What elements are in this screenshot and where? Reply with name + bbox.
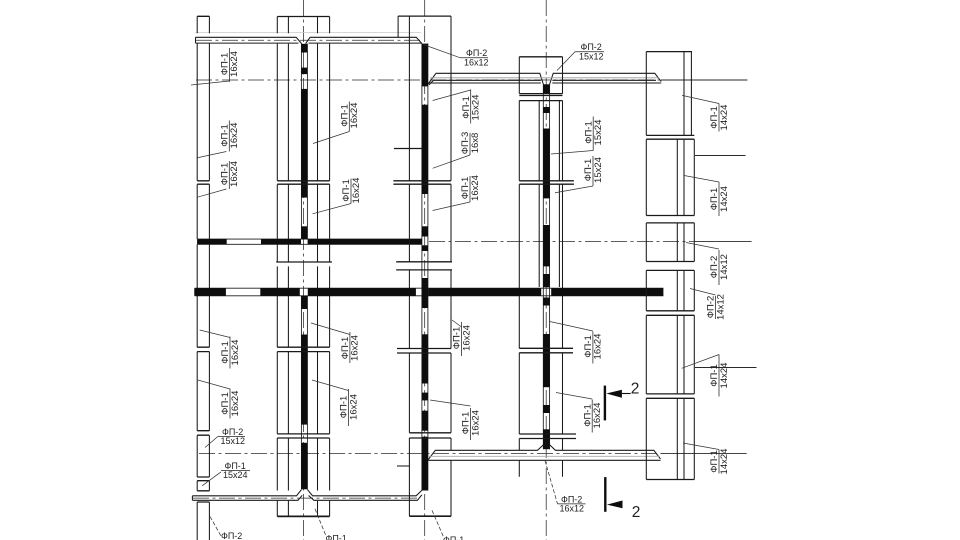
svg-text:ФП-1: ФП-1 xyxy=(443,535,464,540)
leader left lower xyxy=(205,436,218,447)
wall col4 black segment d xyxy=(543,225,549,266)
wall row3 outline xyxy=(195,288,664,296)
pads col3 line b xyxy=(450,16,452,516)
label ФП-2 16x12 top middle xyxy=(424,45,489,68)
label ФП-1 14x24 col5 b xyxy=(709,182,730,216)
svg-text:16x8: 16x8 xyxy=(470,133,481,154)
label ФП-1 15x24 col4 a xyxy=(583,117,604,151)
label ФП-1 16x24 col3 b xyxy=(460,175,481,202)
label ФП-1 15x24 col3 top xyxy=(461,90,482,124)
pads col1 joint caps xyxy=(197,16,209,502)
wall col3 black segment g xyxy=(422,393,428,401)
label ФП-1 16x24 col3 c xyxy=(452,322,473,356)
PAD COLUMN 1 (left edge foundation pads) xyxy=(197,16,209,540)
WALL ROW 2 (horizontal bearing wall) xyxy=(198,239,422,244)
AXES xyxy=(193,0,694,540)
svg-text:14x24: 14x24 xyxy=(719,363,730,389)
STRIP ROW 4 (bottom right foundation slab strip) xyxy=(428,445,660,461)
COLUMN 2 WALL (vertical bearing wall) xyxy=(301,44,307,490)
label ФП-1 16x24 col1 d xyxy=(220,337,241,369)
wall col3 black segment f xyxy=(422,334,428,383)
label ФП-1 14x24 col5 e xyxy=(709,355,730,397)
wall col3 black segment c xyxy=(422,226,428,236)
PAD COLUMN 3 (foundation pad strip) xyxy=(393,16,452,516)
wall col3 black segment a xyxy=(422,44,428,87)
svg-text:16x24: 16x24 xyxy=(229,161,240,187)
label ФП-1 16x24 col1 e xyxy=(220,389,241,419)
axis line bottom strip row xyxy=(193,497,420,499)
level line right lower xyxy=(695,367,757,369)
wall row3 black segment b xyxy=(260,288,300,296)
svg-text:15x24: 15x24 xyxy=(223,470,248,480)
wall col4 black segment i xyxy=(543,429,549,449)
axis line column 3 vertical xyxy=(424,0,426,540)
strip4 bottom line xyxy=(428,459,660,461)
wall col4 black segment b xyxy=(543,107,549,113)
wall col4 outline xyxy=(543,84,549,449)
leader bottom edge center xyxy=(315,509,326,536)
label ФП-1 16x24 col1 a xyxy=(220,48,241,82)
strip5 bottom line xyxy=(192,495,422,501)
wall col2 black segment g xyxy=(301,443,307,490)
pads col4 joint caps xyxy=(519,57,576,439)
svg-text:15x24: 15x24 xyxy=(593,120,604,146)
wall col2 outline xyxy=(301,44,307,490)
leader col5 a xyxy=(682,95,719,103)
leader col3 b xyxy=(433,202,470,211)
section arrow lower xyxy=(607,501,623,509)
pads col1 right line xyxy=(208,16,210,540)
pads col4 inner line b xyxy=(558,101,560,287)
svg-text:16x24: 16x24 xyxy=(349,103,360,129)
wall col4 black segment c xyxy=(543,129,549,199)
pads col4 inner line a xyxy=(538,101,540,287)
svg-text:14x12: 14x12 xyxy=(715,294,726,320)
STRIP ROW 1 (top left foundation slab strip) xyxy=(196,33,422,44)
leader col2 a xyxy=(313,132,349,144)
label ФП-1 15x24 col4 b xyxy=(583,156,604,186)
wall col4 black segment e xyxy=(543,274,549,287)
axis line wall row 4 horizontal xyxy=(199,452,660,454)
axis line column 2 vertical xyxy=(303,0,305,540)
pads col5 joint caps xyxy=(646,52,694,480)
svg-text:2: 2 xyxy=(632,504,641,521)
pads col3 joint caps xyxy=(393,16,452,438)
leader col5 c xyxy=(686,243,719,250)
label ФП-3 16x8 col3 a xyxy=(460,132,481,155)
wall col3 black segment d xyxy=(422,245,428,251)
label ФП-1 16x24 col2 b xyxy=(341,178,362,204)
section line upper xyxy=(604,386,606,421)
pads col2 joint caps xyxy=(276,17,332,439)
wall row3 black segment c xyxy=(308,288,416,296)
svg-text:16x24: 16x24 xyxy=(348,394,359,420)
pads col2 bottom cap xyxy=(277,515,329,517)
wall col4 black segment h xyxy=(543,405,549,413)
svg-text:14x24: 14x24 xyxy=(719,186,730,212)
wall row3 black segment d xyxy=(428,288,541,296)
PAD COLUMN 4 (foundation pad strip) xyxy=(519,57,576,477)
level line right upper xyxy=(695,155,746,157)
svg-text:15x12: 15x12 xyxy=(221,436,246,446)
leader col4 b xyxy=(555,186,593,193)
axis solid continuation bottom right xyxy=(661,452,747,454)
pads col5 line a xyxy=(645,52,647,480)
svg-text:ФП-1: ФП-1 xyxy=(326,534,347,540)
wall col3 outline xyxy=(422,44,428,491)
svg-text:16x12: 16x12 xyxy=(464,57,489,67)
axis solid continuation middle right xyxy=(694,241,752,243)
wall col2 black segment e xyxy=(301,296,307,309)
axis line top strip row xyxy=(196,39,420,41)
svg-text:16x12: 16x12 xyxy=(560,504,585,514)
strip2 top line with chamfers xyxy=(428,73,661,84)
svg-text:16x24: 16x24 xyxy=(461,325,472,351)
strip2 center gray line xyxy=(430,77,659,79)
COLUMN 4 WALL (vertical bearing wall) xyxy=(543,84,549,449)
STRIP ROW 2 (top right foundation slab strip) xyxy=(428,73,661,85)
misc level lines right side xyxy=(661,80,757,453)
wall col3 black segment b xyxy=(422,105,428,194)
section arrow tail upper xyxy=(622,393,631,395)
leader col4 c xyxy=(550,322,593,332)
section arrow upper xyxy=(606,390,622,398)
label ФП-1 bottom edge center xyxy=(315,509,347,540)
leader col3 c xyxy=(452,320,462,327)
wall row2 outline xyxy=(198,239,422,244)
PAD COLUMN 2 (foundation pad strip) xyxy=(276,17,332,517)
label ФП-1 16x24 col3 d xyxy=(461,408,482,440)
SECTION MARK 2 upper xyxy=(604,381,640,421)
pads col2 line a xyxy=(276,17,278,517)
leader col3 a xyxy=(433,155,470,168)
WALL ROW 3 (horizontal bearing wall) xyxy=(195,288,664,296)
label ФП-2 15x12 left lower xyxy=(205,427,245,448)
leader top middle xyxy=(424,45,460,58)
wall col2 black segment b xyxy=(301,68,307,75)
label ФП-1 16x24 col4 c xyxy=(583,332,604,364)
leader col3 top xyxy=(433,90,471,101)
label ФП-1 16x24 col2 d xyxy=(339,389,360,426)
section line lower xyxy=(604,477,606,512)
wall row3 black segment a xyxy=(195,288,226,296)
svg-text:ФП-2: ФП-2 xyxy=(221,531,242,540)
wall col3 black segment i xyxy=(422,437,428,491)
pads col2 line d xyxy=(329,17,331,517)
svg-text:16x24: 16x24 xyxy=(470,175,481,201)
svg-text:16x24: 16x24 xyxy=(593,334,604,360)
pads col5 line b xyxy=(676,139,678,479)
svg-text:16x24: 16x24 xyxy=(229,123,240,149)
label ФП-1 14x24 col5 a xyxy=(709,104,730,132)
strip1 bottom line xyxy=(196,42,422,44)
PAD COLUMN 5 (right edge foundation pads) xyxy=(646,52,694,480)
strip1 top line with V notch at column2 and end chamfer at column3 xyxy=(196,37,422,43)
ROTATED PAD LABELS xyxy=(191,48,730,474)
strip4 center gray line xyxy=(429,455,659,457)
label ФП-1 bottom edge right xyxy=(432,510,464,540)
strip5 left end cap xyxy=(191,496,193,501)
wall col3 black segment e xyxy=(422,278,428,308)
svg-text:15x24: 15x24 xyxy=(593,157,604,183)
svg-text:14x24: 14x24 xyxy=(719,105,730,131)
svg-text:16x24: 16x24 xyxy=(229,51,240,77)
leader col1 c xyxy=(197,189,226,197)
leader col1 b xyxy=(197,152,226,158)
leader bottom edge left xyxy=(210,517,221,537)
svg-text:15x12: 15x12 xyxy=(579,51,604,61)
SECTION MARK 2 lower xyxy=(604,477,640,521)
leader col1 e xyxy=(198,380,230,389)
leader col5 f xyxy=(683,443,719,450)
strip2 bottom line xyxy=(428,82,661,84)
leader col5 d xyxy=(690,289,716,296)
leader col4 d xyxy=(556,393,592,400)
leader col5 e xyxy=(682,355,719,369)
strip1 faint upper guide xyxy=(196,32,422,34)
COLUMN 3 WALL (vertical bearing wall) xyxy=(422,44,428,491)
wall col3 black segment h xyxy=(422,411,428,431)
axis line column 4 vertical xyxy=(545,0,547,540)
strip2 middle line xyxy=(429,80,656,85)
svg-text:16x24: 16x24 xyxy=(470,410,481,436)
strip5 top line with notches xyxy=(192,490,422,496)
leader bottom edge right xyxy=(432,510,444,538)
STRIP ROW 5 (bottom left foundation slab strip) xyxy=(192,490,422,501)
leader left lower2 xyxy=(202,472,221,486)
svg-text:14x24: 14x24 xyxy=(719,449,730,475)
label ФП-1 16x24 col1 c xyxy=(219,161,240,189)
wall row3 black segment e xyxy=(551,288,663,296)
axis line wall row 1 horizontal xyxy=(196,79,661,81)
wall row2 black segment b xyxy=(261,239,301,244)
wall col2 black segment f xyxy=(301,335,307,425)
wall col2 black segment a xyxy=(301,44,307,53)
label ФП-1 16x24 col2 c xyxy=(340,332,361,363)
strip1 left end cap xyxy=(195,37,197,43)
pads col2 line c xyxy=(317,17,319,517)
leader col1 a xyxy=(191,81,229,85)
svg-text:16x24: 16x24 xyxy=(230,340,241,366)
pads col3 side cap xyxy=(397,465,409,467)
leader col4 a xyxy=(551,151,593,155)
pads col2 line b xyxy=(287,17,289,517)
wall row2 black segment a xyxy=(198,239,227,244)
leader col5 b xyxy=(683,175,719,182)
pads col1 left line xyxy=(196,16,198,540)
label ФП-1 14x24 col5 f xyxy=(709,449,730,475)
label ФП-1 16x24 col4 d xyxy=(582,400,603,433)
pads col5 line d xyxy=(691,52,694,480)
pads col3 line a xyxy=(408,16,410,516)
leader col2 c xyxy=(311,323,350,335)
leader top right xyxy=(557,52,575,71)
axis line wall row 2 horizontal xyxy=(429,241,694,243)
label ФП-1 16x24 col2 a xyxy=(339,102,360,132)
svg-text:14x12: 14x12 xyxy=(719,254,730,280)
label ФП-1 15x24 left lower2 xyxy=(202,461,250,486)
label ФП-2 15x12 top right xyxy=(557,42,604,71)
wall col2 black segment d xyxy=(301,226,307,239)
svg-text:15x24: 15x24 xyxy=(471,95,482,121)
leader bottom middle xyxy=(545,461,558,504)
leader col1 d xyxy=(200,330,230,338)
wall col4 black segment a xyxy=(543,84,549,93)
axis solid continuation top right xyxy=(661,79,747,81)
wall col2 black segment c xyxy=(301,89,307,198)
svg-text:16x24: 16x24 xyxy=(350,335,361,361)
svg-text:16x24: 16x24 xyxy=(230,391,241,417)
leader col3 d xyxy=(430,400,471,406)
pads col4 line a xyxy=(518,57,520,477)
label ФП-2 14x12 col5 c xyxy=(709,250,730,285)
svg-text:16x24: 16x24 xyxy=(351,178,362,204)
wall row2 black segment c xyxy=(308,239,422,244)
label ФП-2 bottom edge left xyxy=(210,517,242,540)
leader col2 d xyxy=(312,380,349,391)
leader col2 b xyxy=(313,204,352,214)
svg-text:2: 2 xyxy=(631,381,640,398)
HORIZONTAL LABELS xyxy=(202,42,604,540)
label ФП-1 16x24 col1 b xyxy=(219,121,240,152)
label ФП-2 14x12 col5 d xyxy=(706,294,727,320)
wall col4 black segment g xyxy=(543,334,549,387)
wall col4 black segment f xyxy=(543,298,549,306)
pads col3 bottom cap xyxy=(409,515,451,517)
pads col5 line c xyxy=(683,52,685,480)
pads col4 line b xyxy=(562,57,564,477)
label ФП-2 16x12 bottom middle xyxy=(545,461,586,514)
svg-text:16x24: 16x24 xyxy=(592,403,603,429)
pads col3 outer top-left line xyxy=(397,16,399,37)
strip4 top line with notches xyxy=(428,445,660,460)
